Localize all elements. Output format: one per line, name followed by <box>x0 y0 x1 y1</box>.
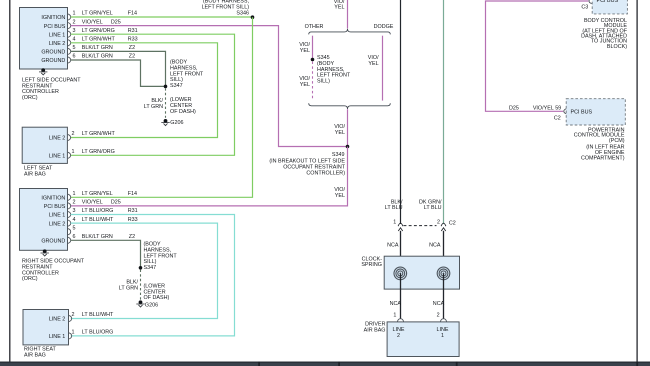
svg-text:2: 2 <box>72 131 75 137</box>
svg-text:G206: G206 <box>145 302 158 308</box>
svg-text:LT GRN/WHT: LT GRN/WHT <box>82 131 116 137</box>
wire NCA left lower from clockspring to driver air bag <box>390 273 402 318</box>
svg-text:Z2: Z2 <box>129 54 135 60</box>
wire LT BLU/ORG R31 pin 3 right ORC line 1 to right seat air bag line 1 <box>71 208 235 336</box>
wire LT GRN/ORG R31 pin 3 left ORC line 1 to left seat air bag line 1 <box>71 28 235 155</box>
wire NCA right upper from C2 to clockspring <box>429 231 443 267</box>
wire VIO/YEL OTHER branch dashed lower part <box>299 62 312 101</box>
wire BLK/LT GRN dashed from right S347 to G206 <box>119 270 141 301</box>
svg-text:VIO/YEL: VIO/YEL <box>533 106 554 112</box>
wire VIO/YEL OTHER branch solid upper part <box>299 36 312 60</box>
svg-text:YEL: YEL <box>335 193 345 199</box>
svg-text:R31: R31 <box>128 208 138 214</box>
ground case ground symbol of right ORC <box>41 249 49 256</box>
svg-text:C3: C3 <box>581 5 588 11</box>
svg-text:1: 1 <box>72 329 75 335</box>
svg-text:(PCM): (PCM) <box>609 138 625 144</box>
wire page frame rule left <box>9 0 11 362</box>
svg-text:LINE 2: LINE 2 <box>49 317 65 323</box>
node S346 splice (body harness left front sill) <box>202 0 255 19</box>
svg-text:LT GRN/ORG: LT GRN/ORG <box>82 149 115 155</box>
node label LEFT SIDE OCCUPANT RESTRAINT CONTROLLER (ORC) <box>22 77 81 101</box>
svg-text:NCA: NCA <box>387 242 399 248</box>
wire VIO/YEL trunk to body control module and powertrain control module <box>486 1 589 111</box>
svg-text:S347: S347 <box>170 83 183 89</box>
wire DK GRN/LT BLU from top to C2 clockspring connector <box>419 0 443 224</box>
svg-text:D25: D25 <box>111 200 121 206</box>
module right seat air bag <box>23 310 72 345</box>
svg-text:NCA: NCA <box>390 301 402 307</box>
wire LT GRN/YEL F14 pin 1 left ORC ignition to S346 <box>71 11 253 17</box>
svg-text:2: 2 <box>437 220 440 226</box>
node label LEFT SEAT AIR BAG <box>24 165 53 177</box>
wire label 2 VIO/YEL D25 right ORC pci bus <box>73 200 121 206</box>
wire NCA right lower from clockspring to driver air bag <box>433 273 445 318</box>
svg-text:COMPARTMENT): COMPARTMENT) <box>581 155 625 161</box>
svg-text:YEL: YEL <box>300 82 310 88</box>
svg-text:F14: F14 <box>128 191 137 197</box>
svg-text:IGNITION: IGNITION <box>41 196 65 202</box>
node label POWERTRAIN CONTROL MODULE annotation <box>574 127 625 161</box>
svg-text:YEL: YEL <box>368 61 378 67</box>
svg-text:YEL: YEL <box>335 130 345 136</box>
svg-text:YEL: YEL <box>334 5 344 11</box>
svg-text:GROUND: GROUND <box>41 50 65 56</box>
svg-text:C2: C2 <box>449 220 456 226</box>
wire LT BLU/WHT R33 pin 4 right ORC line 2 to right seat air bag line 2 <box>71 217 218 319</box>
svg-text:LT BLU/ORG: LT BLU/ORG <box>82 208 114 214</box>
node driver air bag pins 1 and 2 <box>393 312 446 321</box>
wire BLK/LT GRN dashed from S347 to G206 left <box>144 88 166 118</box>
svg-text:C2: C2 <box>554 116 561 122</box>
svg-text:R33: R33 <box>128 37 138 43</box>
svg-text:NCA: NCA <box>433 301 445 307</box>
svg-text:PCI BUS: PCI BUS <box>571 110 593 116</box>
node S347 left splice (body harness left front sill) <box>164 59 204 89</box>
svg-text:D25: D25 <box>509 106 519 112</box>
svg-text:S347: S347 <box>144 265 157 271</box>
svg-text:LT BLU/WHT: LT BLU/WHT <box>82 217 114 223</box>
node brace top OTHER/DODGE <box>305 24 394 35</box>
svg-text:AIR BAG: AIR BAG <box>364 327 386 333</box>
wire LT GRN/WHT R33 pin 4 left ORC line 2 to left seat air bag line 2 <box>71 37 218 138</box>
svg-text:2: 2 <box>73 19 76 25</box>
svg-text:6: 6 <box>73 54 76 60</box>
svg-text:LINE 2: LINE 2 <box>49 221 65 227</box>
svg-text:2: 2 <box>397 333 400 339</box>
svg-text:LT GRN/ORG: LT GRN/ORG <box>82 28 115 34</box>
node S345 splice (body harness left front sill) <box>311 55 351 85</box>
svg-text:1: 1 <box>393 220 396 226</box>
svg-text:SILL): SILL) <box>317 79 330 85</box>
module body control module PCI BUS (dashed) <box>592 0 627 14</box>
coil clockspring spiral right <box>437 267 450 280</box>
svg-text:OTHER: OTHER <box>305 24 324 30</box>
ground G206 right (lower center of dash) <box>136 283 169 308</box>
wire VIO/YEL DODGE branch <box>368 36 383 101</box>
module powertrain control module PCI BUS (dashed) <box>566 99 625 125</box>
svg-text:R31: R31 <box>128 28 138 34</box>
svg-text:LT GRN: LT GRN <box>119 286 138 292</box>
svg-text:SPRING: SPRING <box>361 262 382 268</box>
wire label D25 VIO/YEL 59 to PCM <box>509 106 561 122</box>
svg-text:LT BLU/WHT: LT BLU/WHT <box>82 312 114 318</box>
coil clockspring spiral left <box>394 267 407 280</box>
wire label 2 LT GRN/WHT at left air bag <box>72 131 116 137</box>
svg-text:3: 3 <box>73 208 76 214</box>
svg-text:Z2: Z2 <box>129 45 135 51</box>
svg-text:BLK/LT GRN: BLK/LT GRN <box>82 54 113 60</box>
svg-text:R33: R33 <box>128 217 138 223</box>
svg-text:(IN BREAKOUT TO LEFT SIDE: (IN BREAKOUT TO LEFT SIDE <box>269 158 345 164</box>
ground case ground symbol of left ORC <box>39 68 47 75</box>
svg-text:BLK/LT GRN: BLK/LT GRN <box>82 234 113 240</box>
svg-text:1: 1 <box>441 333 444 339</box>
svg-text:S349: S349 <box>332 152 345 158</box>
wire BLK/LT GRN Z2 pin 6 left ORC ground to S347 <box>71 54 166 87</box>
svg-text:LT GRN/YEL: LT GRN/YEL <box>82 191 113 197</box>
wire BLK/LT BLU from top to C2 clockspring connector <box>385 0 403 224</box>
svg-text:S346: S346 <box>236 10 249 16</box>
node label DRIVER AIR BAG <box>364 322 386 334</box>
wire label 1 LT BLU/ORG at right air bag <box>72 329 114 335</box>
svg-text:LINE 1: LINE 1 <box>49 213 65 219</box>
node connector C3 at body control module <box>581 0 591 11</box>
wire label 1 LT GRN/YEL F14 right ORC ignition <box>73 191 137 197</box>
svg-text:OF DASH): OF DASH) <box>170 109 196 115</box>
wire label 1 LT GRN/ORG at left air bag <box>72 149 115 155</box>
svg-text:BLOCK): BLOCK) <box>607 44 627 50</box>
svg-text:LINE 1: LINE 1 <box>49 32 65 38</box>
svg-text:D25: D25 <box>111 19 121 25</box>
node brace bottom OTHER/DODGE <box>309 103 391 109</box>
wire NCA left upper from C2 to clockspring <box>387 231 400 267</box>
svg-text:(ORC): (ORC) <box>22 276 38 282</box>
wire page frame rule right <box>636 0 638 362</box>
svg-text:1: 1 <box>73 191 76 197</box>
svg-text:PCI BUS: PCI BUS <box>597 0 619 4</box>
svg-text:G206: G206 <box>170 120 183 126</box>
svg-text:BLK/LT GRN: BLK/LT GRN <box>82 45 113 51</box>
svg-text:LINE 1: LINE 1 <box>49 334 65 340</box>
node connector C2 at powertrain control module <box>564 109 567 114</box>
svg-text:AIR BAG: AIR BAG <box>24 352 46 358</box>
svg-text:LINE 1: LINE 1 <box>49 154 65 160</box>
svg-text:AIR BAG: AIR BAG <box>24 171 46 177</box>
svg-text:IGNITION: IGNITION <box>41 15 65 21</box>
svg-text:LT BLU/ORG: LT BLU/ORG <box>82 329 114 335</box>
svg-text:VIO/YEL: VIO/YEL <box>82 200 103 206</box>
svg-text:1: 1 <box>72 149 75 155</box>
svg-text:GROUND: GROUND <box>41 58 65 64</box>
svg-text:PCI BUS: PCI BUS <box>44 24 66 30</box>
svg-text:LT BLU: LT BLU <box>424 205 442 211</box>
svg-text:CONTROLLER): CONTROLLER) <box>306 171 345 177</box>
svg-text:LT GRN/YEL: LT GRN/YEL <box>82 11 113 17</box>
wire VIO/YEL from S349 down to right ORC PCI BUS <box>71 147 348 206</box>
module clockspring <box>361 256 459 289</box>
svg-text:DODGE: DODGE <box>374 24 394 30</box>
svg-text:2: 2 <box>73 200 76 206</box>
svg-text:NCA: NCA <box>429 242 441 248</box>
svg-text:4: 4 <box>73 217 76 223</box>
svg-text:Z2: Z2 <box>129 234 135 240</box>
svg-text:1: 1 <box>73 11 76 17</box>
svg-text:LINE 2: LINE 2 <box>49 41 65 47</box>
node S347 right splice (body harness left front sill) <box>139 241 178 271</box>
module driver air bag <box>387 322 459 357</box>
node label BODY CONTROL MODULE annotation <box>581 18 628 50</box>
svg-text:5: 5 <box>73 225 76 231</box>
svg-text:YEL: YEL <box>300 48 310 54</box>
svg-text:2: 2 <box>437 312 440 318</box>
svg-text:LT BLU: LT BLU <box>385 205 403 211</box>
node bottom window bar <box>0 362 650 366</box>
wire VIO/YEL trunk from top to brace <box>334 0 348 28</box>
wire label 2 LT BLU/WHT at right air bag <box>72 312 115 318</box>
wire VIO/YEL D25 pin 2 left ORC PCI BUS to S349 <box>71 19 348 146</box>
svg-text:3: 3 <box>73 28 76 34</box>
ground G206 left (lower center of dash) <box>161 97 196 126</box>
svg-text:LINE 2: LINE 2 <box>49 136 65 142</box>
svg-text:VIO/YEL: VIO/YEL <box>82 19 103 25</box>
svg-text:6: 6 <box>73 234 76 240</box>
svg-text:1: 1 <box>393 312 396 318</box>
wire VIO/YEL from bottom brace to S349 <box>334 109 347 146</box>
svg-text:LT GRN/WHT: LT GRN/WHT <box>82 37 116 43</box>
module right side occupant restraint controller (ORC) with pin labels <box>20 189 71 251</box>
svg-text:F14: F14 <box>128 11 137 17</box>
node connector C2 inline pins 1 and 2 with dashed tie <box>393 220 456 231</box>
module left seat air bag <box>22 127 70 163</box>
module left side occupant restraint controller (ORC) with pin labels <box>20 8 71 70</box>
node label RIGHT SEAT AIR BAG <box>24 346 57 358</box>
wire LT GRN/YEL from S346 down to right ORC ignition <box>71 17 253 197</box>
wire BLK/LT GRN Z2 pin 6 right ORC ground to S347 right <box>71 234 141 268</box>
node label RIGHT SIDE OCCUPANT RESTRAINT CONTROLLER (ORC) <box>22 258 85 282</box>
node S349 splice (in breakout to left side ORC) <box>269 145 349 177</box>
wire BLK/LT GRN Z2 pin 5 left ORC ground to S347 <box>71 45 166 86</box>
svg-text:4: 4 <box>73 37 76 43</box>
svg-text:OCCUPANT RESTRAINT: OCCUPANT RESTRAINT <box>283 165 346 171</box>
svg-text:OF DASH): OF DASH) <box>144 295 170 301</box>
svg-text:GROUND: GROUND <box>41 239 65 245</box>
svg-text:59: 59 <box>555 106 561 112</box>
svg-text:LT GRN: LT GRN <box>144 104 163 110</box>
pin 5 empty stub label right ORC <box>73 225 76 231</box>
svg-text:2: 2 <box>72 312 75 318</box>
svg-text:5: 5 <box>73 45 76 51</box>
svg-text:PCI BUS: PCI BUS <box>44 204 66 210</box>
svg-text:(ORC): (ORC) <box>22 95 38 101</box>
